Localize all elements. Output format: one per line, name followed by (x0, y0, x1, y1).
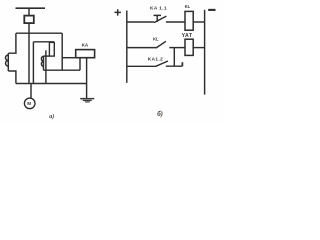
svg-text:KA: KA (82, 43, 89, 48)
wire branch junction (173, 48, 175, 66)
electromagnet coil YAT (185, 39, 193, 55)
wire crossing drop (45, 50, 47, 83)
svg-text:KA1.2: KA1.2 (148, 56, 163, 61)
wire KA left leg (79, 58, 81, 70)
wire left rail (126, 11, 128, 83)
wire TA2 bottom (44, 69, 81, 71)
contact KL (157, 41, 166, 47)
wire outer right (61, 33, 63, 70)
wire rung2 to rail (193, 47, 204, 49)
plus terminal (115, 9, 121, 15)
wire rung3 left (127, 65, 156, 67)
wire phase A upper (8, 33, 16, 53)
contact KA1.1 (154, 15, 167, 22)
svg-text:YAT: YAT (182, 33, 193, 39)
wire bottom bus (16, 83, 87, 85)
wire right rail (204, 10, 206, 95)
wire rung2 mid (169, 47, 185, 49)
wire box stub (44, 55, 50, 57)
wire rung1 left (127, 21, 154, 23)
svg-text:KA 1.1: KA 1.1 (150, 6, 167, 11)
control circuit (115, 9, 216, 94)
wire rung1 to rail (193, 21, 204, 23)
wire rung3 right (166, 65, 183, 67)
relay coil KL (185, 11, 193, 30)
contact KA1.2 (156, 61, 168, 66)
wire rung1 right (166, 21, 185, 23)
wire header (33, 41, 54, 43)
svg-text:M: M (27, 101, 31, 106)
svg-text:KL: KL (185, 4, 191, 9)
minus terminal (208, 9, 215, 11)
wire phase A lower (8, 71, 16, 84)
motor M (24, 98, 35, 109)
ground (80, 98, 94, 103)
wire phase C drop (32, 42, 34, 84)
wire phase B (28, 23, 30, 83)
svg-text:б): б) (157, 110, 163, 118)
wire KA feed (62, 57, 75, 59)
wire rung2 left (127, 47, 157, 49)
relay coil KA (76, 50, 95, 58)
overload element box (49, 42, 54, 56)
svg-text:а): а) (49, 113, 54, 120)
wire rail (16, 32, 62, 34)
wire motor drop (30, 84, 32, 99)
transformer TA2 winding (41, 56, 43, 70)
wire fuse drop top (28, 8, 30, 16)
transformer TA1 winding (6, 53, 9, 71)
fuse FU (24, 16, 34, 24)
wire stub (181, 62, 183, 66)
wire KA right leg (86, 58, 88, 98)
top bus (16, 7, 46, 9)
svg-text:KL: KL (153, 37, 159, 42)
